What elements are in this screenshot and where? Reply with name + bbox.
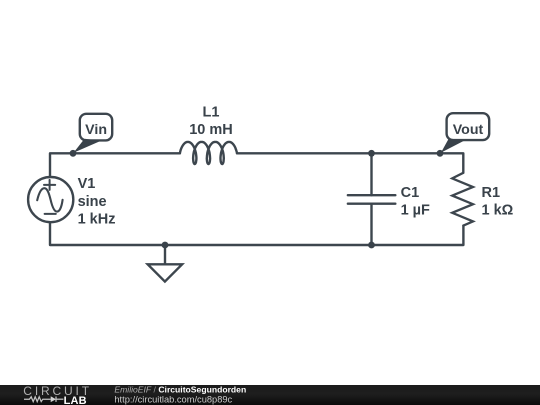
- svg-text:C1: C1: [401, 185, 420, 201]
- svg-text:1 kΩ: 1 kΩ: [482, 202, 514, 218]
- svg-text:LAB: LAB: [64, 395, 87, 405]
- svg-text:R1: R1: [482, 185, 501, 201]
- svg-text:Vin: Vin: [85, 122, 107, 138]
- svg-text:10 mH: 10 mH: [189, 122, 233, 138]
- svg-text:1 kHz: 1 kHz: [78, 212, 116, 228]
- svg-text:L1: L1: [203, 105, 220, 121]
- svg-text:V1: V1: [78, 176, 96, 192]
- svg-text:sine: sine: [78, 194, 107, 210]
- svg-text:EmilioEIF / CircuitoSegundorde: EmilioEIF / CircuitoSegundorden: [114, 384, 246, 394]
- svg-text:http://circuitlab.com/cu8p89c: http://circuitlab.com/cu8p89c: [114, 394, 232, 404]
- svg-text:1 µF: 1 µF: [401, 202, 430, 218]
- svg-text:Vout: Vout: [453, 122, 484, 138]
